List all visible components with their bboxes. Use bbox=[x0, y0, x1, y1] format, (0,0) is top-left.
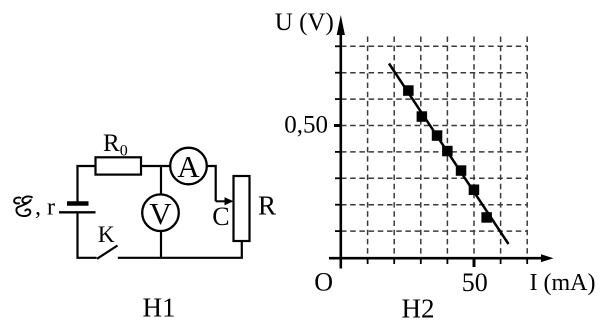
svg-text:, r: , r bbox=[35, 195, 55, 221]
wire battery top lead bbox=[76, 166, 78, 203]
wire top-left horizontal bbox=[76, 165, 96, 167]
data point 3 bbox=[432, 130, 443, 141]
switch K blade bbox=[97, 246, 118, 259]
label EMF script E bbox=[14, 196, 32, 216]
data point 6 bbox=[469, 185, 480, 196]
data fit line bbox=[389, 64, 509, 245]
resistor R0 bbox=[96, 157, 142, 174]
svg-text:50: 50 bbox=[462, 268, 488, 297]
slider arrow into rheostat bbox=[216, 200, 227, 202]
svg-text:O: O bbox=[314, 268, 333, 297]
wire rheostat bottom lead bbox=[118, 241, 242, 258]
x-axis I bbox=[329, 257, 545, 260]
svg-text:H2: H2 bbox=[402, 293, 435, 323]
rheostat R bbox=[234, 176, 250, 241]
ammeter A bbox=[170, 148, 207, 185]
svg-text:I (mA): I (mA) bbox=[530, 270, 596, 296]
x-axis ticks bbox=[368, 258, 528, 264]
svg-text:C: C bbox=[212, 202, 229, 231]
wire voltmeter top branch bbox=[160, 166, 162, 195]
svg-text:0,50: 0,50 bbox=[284, 111, 328, 138]
data point 7 bbox=[481, 212, 492, 223]
graph grid vertical dashed lines bbox=[368, 37, 528, 259]
y-axis U bbox=[339, 28, 342, 269]
svg-text:K: K bbox=[98, 222, 115, 248]
voltmeter V bbox=[142, 194, 179, 231]
battery thin long plate bbox=[59, 211, 96, 213]
wire resistor to ammeter bbox=[141, 165, 171, 167]
svg-text:H1: H1 bbox=[143, 293, 176, 323]
data point 5 bbox=[456, 165, 467, 176]
graph grid horizontal dashed lines bbox=[341, 46, 527, 231]
wire voltmeter bottom branch bbox=[160, 231, 162, 259]
svg-text:R: R bbox=[258, 190, 276, 220]
y-axis tick 0,50 bbox=[334, 124, 342, 127]
y-axis ticks bbox=[335, 46, 342, 231]
wire bottom-left segment bbox=[78, 213, 97, 258]
svg-text:U (V): U (V) bbox=[275, 9, 334, 36]
svg-text:V: V bbox=[149, 196, 172, 231]
data point 1 bbox=[403, 85, 414, 96]
data point 2 bbox=[417, 111, 428, 122]
svg-text:A: A bbox=[177, 149, 200, 184]
data point 4 bbox=[442, 146, 453, 157]
battery thick short plate bbox=[67, 201, 89, 206]
x-axis tick 50 bbox=[473, 258, 476, 267]
wire ammeter right bbox=[207, 166, 216, 201]
